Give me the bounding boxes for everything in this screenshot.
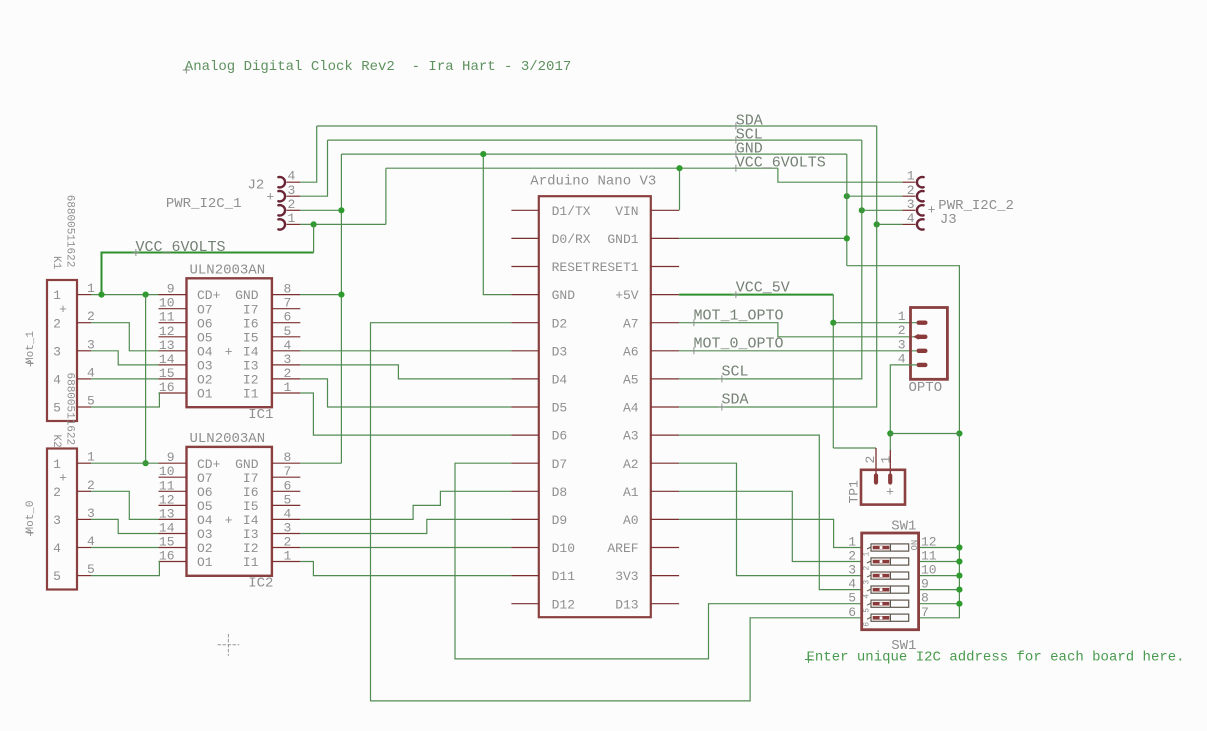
svg-text:+5V: +5V bbox=[615, 288, 639, 303]
svg-text:A0: A0 bbox=[623, 513, 639, 528]
wire OPTO pin4 down bbox=[890, 365, 916, 434]
junction OPTO pin4 branch bbox=[887, 430, 893, 436]
svg-text:VCC_6VOLTS: VCC_6VOLTS bbox=[136, 239, 226, 256]
svg-text:4: 4 bbox=[848, 577, 856, 592]
wire K2 pin3 to IC2 O3 bbox=[91, 519, 159, 533]
connector OPTO outline bbox=[911, 308, 948, 380]
svg-text:A1: A1 bbox=[623, 485, 639, 500]
wire VCC_5V to TP1 pin2 bbox=[833, 448, 876, 474]
svg-text:D8: D8 bbox=[552, 485, 568, 500]
svg-text:3: 3 bbox=[863, 580, 872, 585]
svg-text:VIN: VIN bbox=[615, 204, 638, 219]
junction SW1 right pin 8 bbox=[956, 601, 962, 607]
label K2 68800511622 bbox=[64, 373, 76, 446]
svg-text:I5: I5 bbox=[243, 499, 259, 514]
wire VCC_6VOLTS drop bbox=[385, 168, 387, 224]
net label SCL A5 bbox=[718, 364, 748, 383]
wire SDA to J2 pin4 bbox=[300, 126, 316, 182]
svg-text:13: 13 bbox=[159, 506, 175, 521]
svg-text:+: + bbox=[266, 190, 274, 205]
wire J3 pin1 VCC_6VOLTS bbox=[778, 168, 903, 182]
wire D8 to IC2 I4 bbox=[300, 491, 511, 519]
wire J2 pin1 VCC_6VOLTS bbox=[300, 223, 386, 225]
svg-text:1: 1 bbox=[284, 549, 292, 564]
svg-text:9: 9 bbox=[921, 577, 929, 592]
svg-text:4: 4 bbox=[53, 541, 61, 556]
wire D2 net bbox=[371, 323, 862, 701]
polarity + K2 bbox=[59, 470, 67, 485]
svg-text:I2: I2 bbox=[243, 373, 259, 388]
label K1 68800511622 bbox=[64, 195, 76, 268]
label Mot_0 bbox=[25, 500, 37, 536]
label ULN2003AN IC1 bbox=[190, 263, 266, 279]
wire D9 to IC2 I3 bbox=[300, 519, 511, 533]
connector K1 pins bbox=[53, 281, 95, 416]
svg-text:D13: D13 bbox=[615, 597, 638, 612]
svg-text:Arduino Nano V3: Arduino Nano V3 bbox=[530, 174, 656, 190]
ic IC2 ULN2003AN outline bbox=[187, 447, 272, 576]
svg-text:I4: I4 bbox=[243, 513, 259, 528]
svg-text:D12: D12 bbox=[552, 597, 575, 612]
svg-text:GND1: GND1 bbox=[607, 232, 638, 247]
junction VCC_6VOLTS K1 bbox=[98, 292, 104, 298]
svg-text:2: 2 bbox=[284, 535, 292, 550]
svg-text:1: 1 bbox=[87, 281, 95, 296]
svg-text:8: 8 bbox=[284, 450, 292, 465]
svg-text:15: 15 bbox=[159, 535, 175, 550]
wire A2 to SW1 pin3 bbox=[679, 463, 862, 575]
wire J2 pin2 to GND bbox=[300, 209, 341, 211]
svg-text:D4: D4 bbox=[552, 373, 568, 388]
junction SW1 right pin 11 bbox=[956, 558, 962, 564]
svg-text:2: 2 bbox=[863, 456, 878, 464]
label IC1 bbox=[248, 407, 273, 423]
svg-text:O1: O1 bbox=[197, 555, 213, 570]
svg-text:Mot_0: Mot_0 bbox=[25, 500, 37, 533]
svg-text:O4: O4 bbox=[197, 513, 213, 528]
svg-text:I4: I4 bbox=[243, 344, 259, 359]
svg-text:MOT_0_OPTO: MOT_0_OPTO bbox=[694, 335, 784, 352]
net label VCC_6VOLTS left bbox=[132, 239, 225, 256]
svg-text:K2: K2 bbox=[50, 435, 62, 448]
note text bbox=[805, 650, 1185, 666]
svg-text:O3: O3 bbox=[197, 359, 213, 374]
svg-text:6: 6 bbox=[863, 622, 872, 627]
svg-text:K1: K1 bbox=[50, 256, 62, 270]
wire GND SW1 vertical bbox=[919, 434, 960, 618]
wire IC2 pin8 GND bbox=[300, 462, 341, 464]
svg-text:4: 4 bbox=[53, 373, 61, 388]
svg-text:5: 5 bbox=[53, 401, 61, 416]
svg-text:2: 2 bbox=[848, 549, 856, 564]
svg-text:SW1: SW1 bbox=[891, 519, 916, 535]
svg-text:4: 4 bbox=[87, 534, 95, 549]
mcu right pin names bbox=[592, 204, 639, 612]
wire K2 pin2 to IC2 O4 bbox=[91, 491, 159, 519]
svg-text:O5: O5 bbox=[197, 499, 213, 514]
svg-text:SCL: SCL bbox=[722, 364, 749, 381]
label SW1 bottom bbox=[891, 638, 916, 654]
wire GND vertical bbox=[340, 154, 342, 463]
svg-text:ULN2003AN: ULN2003AN bbox=[190, 431, 266, 447]
junction SW1 right pin 9 bbox=[956, 587, 962, 593]
polarity + J2 bbox=[266, 190, 274, 205]
label SW1 top bbox=[891, 519, 916, 535]
wire D11 to IC2 I1 bbox=[300, 562, 511, 576]
svg-text:12: 12 bbox=[159, 324, 175, 339]
svg-text:I3: I3 bbox=[243, 359, 259, 374]
svg-text:SDA: SDA bbox=[722, 392, 749, 409]
svg-text:4: 4 bbox=[907, 211, 915, 226]
wire OPTO pin1 bbox=[833, 322, 916, 324]
svg-text:Mot_1: Mot_1 bbox=[25, 331, 37, 364]
svg-text:1: 1 bbox=[848, 535, 856, 550]
svg-text:D10: D10 bbox=[552, 541, 575, 556]
wire D4 to IC1 I3 bbox=[300, 365, 511, 379]
label K1 bbox=[50, 256, 62, 270]
svg-text:5: 5 bbox=[863, 608, 872, 613]
junction IC1 pin8 bbox=[338, 292, 344, 298]
svg-text:4: 4 bbox=[87, 365, 95, 380]
ic IC1 ULN2003AN outline bbox=[187, 278, 272, 407]
wire K1 pin5 to IC1 O1 bbox=[91, 393, 159, 407]
junction J3 pin3 bbox=[859, 207, 865, 213]
svg-text:1: 1 bbox=[878, 456, 893, 464]
label ULN2003AN IC2 bbox=[190, 431, 266, 447]
svg-text:O3: O3 bbox=[197, 527, 213, 542]
svg-text:+: + bbox=[59, 470, 67, 485]
svg-text:RESET1: RESET1 bbox=[592, 260, 639, 275]
svg-text:2: 2 bbox=[907, 183, 915, 198]
svg-text:I5: I5 bbox=[243, 330, 259, 345]
junction VCC_5V OPTO bbox=[830, 320, 836, 326]
label K2 bbox=[50, 435, 62, 448]
wire D10 to IC2 I2 bbox=[300, 547, 511, 549]
svg-text:12: 12 bbox=[921, 535, 937, 550]
net label SDA bbox=[732, 112, 762, 129]
svg-text:CD+: CD+ bbox=[197, 288, 221, 303]
svg-text:CD+: CD+ bbox=[197, 457, 221, 472]
junction J3 pin4 bbox=[874, 221, 880, 227]
svg-text:5: 5 bbox=[87, 562, 95, 577]
wire VCC_6VOLTS left run bbox=[102, 253, 314, 295]
svg-text:2: 2 bbox=[87, 478, 95, 493]
polarity + J3 bbox=[928, 203, 936, 218]
wire A4 SDA bbox=[679, 126, 877, 407]
svg-text:GND: GND bbox=[552, 288, 576, 303]
svg-text:3: 3 bbox=[907, 197, 915, 212]
switch SW1 outline bbox=[862, 533, 919, 630]
junction GND TP1 branch bbox=[956, 430, 962, 436]
svg-text:VCC_5V: VCC_5V bbox=[736, 279, 790, 296]
junction K1 pin1 column bbox=[143, 292, 149, 298]
wire J3 pin4 SDA bbox=[877, 223, 903, 225]
net label VCC_6VOLTS bbox=[732, 155, 825, 172]
svg-text:3: 3 bbox=[288, 183, 296, 198]
svg-text:O6: O6 bbox=[197, 485, 213, 500]
connector J2 PWR_I2C_1 bbox=[278, 169, 300, 230]
svg-text:GND: GND bbox=[235, 288, 259, 303]
switch SW1 elements bbox=[848, 535, 937, 627]
svg-text:14: 14 bbox=[159, 521, 175, 536]
label J3 bbox=[940, 212, 957, 228]
svg-text:5: 5 bbox=[284, 324, 292, 339]
svg-text:1: 1 bbox=[898, 309, 906, 324]
polarity + IC2 bbox=[225, 513, 233, 528]
svg-text:ON: ON bbox=[910, 540, 920, 551]
wire K1 pin2 to IC1 O4 bbox=[91, 323, 159, 351]
svg-text:16: 16 bbox=[159, 380, 175, 395]
svg-text:3V3: 3V3 bbox=[615, 569, 638, 584]
mcu right pin stubs bbox=[651, 210, 679, 603]
svg-text:9: 9 bbox=[167, 282, 175, 297]
net label SCL bbox=[732, 127, 762, 144]
svg-text:8: 8 bbox=[921, 591, 929, 606]
polarity + TP1 bbox=[886, 485, 894, 500]
svg-text:D1/TX: D1/TX bbox=[552, 204, 591, 219]
junction J3 pin2 bbox=[844, 193, 850, 199]
wire VCC_5V bbox=[679, 294, 833, 296]
ic IC1 pin stubs bbox=[159, 295, 301, 393]
wire K1 pin1 to IC1 pin9 bbox=[91, 294, 159, 296]
svg-text:Analog Digital Clock Rev2 - I: Analog Digital Clock Rev2 - Ira Hart - 3… bbox=[185, 59, 571, 75]
svg-text:O7: O7 bbox=[197, 471, 213, 486]
svg-text:2: 2 bbox=[53, 316, 61, 331]
svg-text:+: + bbox=[225, 344, 233, 359]
junction VIN VCC_6VOLTS bbox=[676, 165, 682, 171]
wire GND right vertical bbox=[846, 154, 848, 266]
svg-text:D6: D6 bbox=[552, 429, 568, 444]
svg-text:4: 4 bbox=[284, 338, 292, 353]
svg-text:J2: J2 bbox=[248, 178, 265, 194]
svg-text:1: 1 bbox=[288, 211, 296, 226]
connector J3 PWR_I2C_2 bbox=[902, 169, 923, 230]
svg-text:68800511622: 68800511622 bbox=[64, 373, 76, 446]
svg-text:I1: I1 bbox=[243, 555, 259, 570]
connector K2 Mot_0 outline bbox=[47, 449, 77, 590]
svg-text:AREF: AREF bbox=[607, 541, 638, 556]
svg-text:D9: D9 bbox=[552, 513, 568, 528]
svg-text:+: + bbox=[59, 302, 67, 317]
ic IC2 pin names bbox=[197, 457, 259, 570]
svg-text:+: + bbox=[928, 203, 936, 218]
svg-text:11: 11 bbox=[159, 478, 175, 493]
junction GND1 bbox=[844, 235, 850, 241]
testpoint TP1 outline bbox=[861, 470, 905, 505]
label Mot_1 bbox=[25, 331, 37, 367]
junction J2 pin1 bbox=[311, 221, 317, 227]
junction SW1 right pin 10 bbox=[956, 573, 962, 579]
svg-text:3: 3 bbox=[848, 563, 856, 578]
svg-text:6: 6 bbox=[284, 478, 292, 493]
polarity + K1 bbox=[59, 302, 67, 317]
wire SCL top bbox=[328, 139, 862, 141]
wire SW1 right pin 11 bbox=[919, 561, 960, 563]
svg-text:7: 7 bbox=[284, 464, 292, 479]
svg-text:O4: O4 bbox=[197, 344, 213, 359]
svg-text:10: 10 bbox=[159, 464, 175, 479]
svg-text:1: 1 bbox=[907, 169, 915, 184]
mcu U1 Arduino Nano V3 outline bbox=[539, 196, 651, 617]
wire J3 pin2 GND bbox=[847, 195, 903, 197]
svg-text:IC1: IC1 bbox=[248, 407, 273, 423]
pin label 2 TP1 bbox=[863, 456, 878, 464]
svg-text:11: 11 bbox=[921, 549, 937, 564]
svg-text:VCC_6VOLTS: VCC_6VOLTS bbox=[736, 155, 826, 172]
svg-text:ULN2003AN: ULN2003AN bbox=[190, 263, 266, 279]
svg-text:3: 3 bbox=[53, 344, 61, 359]
svg-text:D7: D7 bbox=[552, 457, 568, 472]
svg-text:8: 8 bbox=[284, 282, 292, 297]
svg-text:O2: O2 bbox=[197, 373, 213, 388]
ic IC1 pin numbers bbox=[159, 282, 292, 395]
svg-text:68800511622: 68800511622 bbox=[64, 195, 76, 268]
wire GND to SW1 column bbox=[847, 266, 960, 434]
svg-text:D5: D5 bbox=[552, 401, 568, 416]
label TP1 bbox=[847, 480, 862, 504]
svg-text:2: 2 bbox=[288, 197, 296, 212]
svg-text:+: + bbox=[886, 485, 894, 500]
svg-text:IC2: IC2 bbox=[248, 576, 273, 592]
junction J2 pin2 GND bbox=[338, 207, 344, 213]
label PWR_I2C_1 bbox=[166, 196, 242, 212]
wire VCC_6VOLTS top bbox=[386, 167, 778, 169]
svg-text:3: 3 bbox=[53, 513, 61, 528]
wire J3 pin3 SCL bbox=[862, 209, 903, 211]
wire SW1 right pin 8 bbox=[919, 603, 960, 605]
svg-text:A7: A7 bbox=[623, 316, 639, 331]
wire SW1 right pin 12 bbox=[919, 547, 960, 549]
junction K2 pin1 column bbox=[143, 460, 149, 466]
svg-text:3: 3 bbox=[284, 521, 292, 536]
svg-text:OPTO: OPTO bbox=[909, 380, 943, 396]
wire K2 pin1 to IC2 pin9 bbox=[91, 462, 159, 464]
wire IC1 pin8 GND bbox=[300, 294, 341, 296]
svg-text:16: 16 bbox=[159, 549, 175, 564]
svg-text:2: 2 bbox=[87, 309, 95, 324]
svg-text:4: 4 bbox=[898, 351, 906, 366]
wire K2 pin4 to IC2 O2 bbox=[91, 547, 159, 549]
svg-text:5: 5 bbox=[87, 394, 95, 409]
svg-text:3: 3 bbox=[284, 352, 292, 367]
svg-text:O5: O5 bbox=[197, 330, 213, 345]
wire A7 MOT_1_OPTO bbox=[679, 323, 916, 337]
svg-text:+: + bbox=[225, 513, 233, 528]
svg-text:A4: A4 bbox=[623, 401, 639, 416]
svg-text:A2: A2 bbox=[623, 457, 639, 472]
mcu left pin stubs bbox=[511, 210, 538, 603]
testpoint TP1 pads bbox=[874, 473, 892, 484]
pin label 1 TP1 bbox=[878, 456, 893, 464]
title text bbox=[183, 59, 571, 75]
wire SCL to J2 pin3 bbox=[300, 140, 327, 196]
wire OPTO pin4 to TP1 pin1 bbox=[889, 434, 891, 474]
wire K2 pin5 to IC2 O1 bbox=[91, 562, 159, 576]
polarity + IC1 bbox=[225, 344, 233, 359]
mcu left pin names bbox=[552, 204, 591, 612]
wire A5 SCL bbox=[679, 140, 862, 379]
svg-text:7: 7 bbox=[921, 605, 929, 620]
svg-text:GND: GND bbox=[235, 457, 259, 472]
svg-text:MOT_1_OPTO: MOT_1_OPTO bbox=[694, 307, 784, 324]
svg-text:10: 10 bbox=[159, 296, 175, 311]
label Arduino Nano V3 bbox=[530, 174, 656, 190]
svg-text:1: 1 bbox=[863, 552, 872, 557]
ic IC2 pin numbers bbox=[159, 450, 292, 563]
svg-text:7: 7 bbox=[284, 296, 292, 311]
wire SDA top bbox=[317, 125, 877, 127]
svg-text:2: 2 bbox=[53, 485, 61, 500]
ic IC1 pin names bbox=[197, 288, 259, 401]
svg-text:2: 2 bbox=[863, 566, 872, 571]
svg-text:3: 3 bbox=[87, 506, 95, 521]
svg-text:I6: I6 bbox=[243, 316, 259, 331]
wire SW1 right pin 10 bbox=[919, 575, 960, 577]
wire A1 to SW1 pin2 bbox=[679, 491, 862, 561]
svg-text:3: 3 bbox=[87, 337, 95, 352]
svg-text:O7: O7 bbox=[197, 302, 213, 317]
svg-text:5: 5 bbox=[53, 569, 61, 584]
svg-text:O1: O1 bbox=[197, 387, 213, 402]
net label GND bbox=[732, 141, 762, 158]
svg-text:RESET: RESET bbox=[552, 260, 591, 275]
svg-text:D11: D11 bbox=[552, 569, 576, 584]
wire K1 pin3 to IC1 O3 bbox=[91, 351, 159, 365]
label ON SW1 bbox=[910, 540, 920, 551]
svg-text:A5: A5 bbox=[623, 373, 639, 388]
label J2 bbox=[248, 178, 265, 194]
svg-text:5: 5 bbox=[284, 492, 292, 507]
label PWR_I2C_2 bbox=[938, 198, 1014, 214]
svg-text:D2: D2 bbox=[552, 316, 568, 331]
svg-text:10: 10 bbox=[921, 563, 937, 578]
svg-text:6: 6 bbox=[848, 605, 856, 620]
wire SW1 right pin 9 bbox=[919, 589, 960, 591]
svg-text:PWR_I2C_1: PWR_I2C_1 bbox=[166, 196, 242, 212]
svg-text:2: 2 bbox=[898, 323, 906, 338]
label OPTO bbox=[909, 380, 943, 396]
svg-text:1: 1 bbox=[87, 450, 95, 465]
svg-text:I7: I7 bbox=[243, 302, 259, 317]
wire A3 to SW1 pin4 bbox=[679, 435, 862, 589]
svg-text:11: 11 bbox=[159, 310, 175, 325]
junction SW1 right pin 12 bbox=[956, 544, 962, 550]
connector OPTO pads bbox=[898, 309, 928, 367]
net label SDA A4 bbox=[718, 392, 748, 411]
svg-text:4: 4 bbox=[863, 594, 872, 599]
svg-text:O6: O6 bbox=[197, 316, 213, 331]
svg-text:Enter unique I2C address for e: Enter unique I2C address for each board … bbox=[807, 650, 1185, 666]
wire D3 to IC1 I4 bbox=[300, 350, 511, 352]
svg-text:13: 13 bbox=[159, 338, 175, 353]
svg-text:D0/RX: D0/RX bbox=[552, 232, 591, 247]
svg-text:4: 4 bbox=[284, 506, 292, 521]
wire VCC_5V down bbox=[832, 295, 834, 448]
net label VCC_5V bbox=[732, 279, 789, 298]
svg-text:1: 1 bbox=[284, 380, 292, 395]
wire GND1 to vertical bbox=[679, 237, 847, 239]
svg-text:A3: A3 bbox=[623, 429, 639, 444]
wire VIN up bbox=[679, 168, 681, 210]
wire GND pin up bbox=[483, 154, 511, 295]
label IC2 bbox=[248, 576, 273, 592]
svg-text:6: 6 bbox=[284, 310, 292, 325]
svg-text:12: 12 bbox=[159, 492, 175, 507]
svg-text:I1: I1 bbox=[243, 387, 259, 402]
svg-text:3: 3 bbox=[898, 337, 906, 352]
svg-text:2: 2 bbox=[284, 366, 292, 381]
svg-text:I6: I6 bbox=[243, 485, 259, 500]
